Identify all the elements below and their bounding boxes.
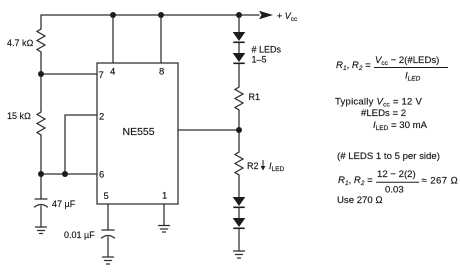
svg-text:1: 1 xyxy=(162,191,167,202)
svg-text:Vcc − 2(#LEDs): Vcc − 2(#LEDs) xyxy=(375,55,439,67)
resistor R1 xyxy=(235,85,243,111)
svg-text:NE555: NE555 xyxy=(123,126,155,138)
wire left column upper xyxy=(40,15,42,27)
wire pin 1 down xyxy=(163,204,165,226)
diode LED3 xyxy=(233,197,246,206)
ground pin 1 xyxy=(159,225,170,227)
wire LED3 to LED4 xyxy=(238,208,240,218)
wire pin 2 horizontal xyxy=(65,114,97,116)
node junction pin8 rail xyxy=(158,12,164,18)
ground LED branch xyxy=(234,250,245,252)
formula typical values xyxy=(335,97,428,133)
capacitor C 47uF xyxy=(35,198,47,200)
wire 47uF to ground xyxy=(40,206,42,227)
svg-text:6: 6 xyxy=(99,170,104,181)
svg-text:ILED: ILED xyxy=(405,71,421,83)
svg-text:R1, R2 =: R1, R2 = xyxy=(338,175,373,187)
formula R1 R2 equation xyxy=(336,55,448,83)
node output junction xyxy=(236,127,242,133)
svg-text:R1: R1 xyxy=(249,92,261,102)
svg-text:1–5: 1–5 xyxy=(252,55,267,65)
svg-text:15 kΩ: 15 kΩ xyxy=(7,111,31,121)
svg-text:(# LEDS 1 to 5 per side): (# LEDS 1 to 5 per side) xyxy=(337,151,440,162)
svg-text:Typically Vcc = 12 V: Typically Vcc = 12 V xyxy=(335,97,422,109)
svg-text:5: 5 xyxy=(104,191,109,202)
svg-text:≈ 267 Ω: ≈ 267 Ω xyxy=(422,176,459,187)
diode LED2 xyxy=(233,53,246,62)
svg-text:47 µF: 47 µF xyxy=(52,199,76,209)
wire LED2 to R1 xyxy=(238,63,240,85)
resistor R 15k xyxy=(37,110,45,136)
svg-text:# LEDs: # LEDs xyxy=(252,45,282,55)
svg-text:4: 4 xyxy=(110,67,115,78)
resistor R 4.7k xyxy=(37,27,45,53)
formula numeric result xyxy=(338,169,458,196)
svg-text:Use 270 Ω: Use 270 Ω xyxy=(337,195,383,206)
ILED down arrow xyxy=(261,160,266,171)
node B2 junction xyxy=(62,171,68,177)
node B junction xyxy=(38,171,44,177)
capacitor C 0.01uF xyxy=(102,229,114,231)
wire pin 2 vertical to node B2 xyxy=(64,115,66,174)
wire node A to pin 7 xyxy=(41,73,97,75)
node junction pin4 rail xyxy=(110,12,116,18)
resistor R2 xyxy=(235,150,243,177)
svg-text:ILED = 30 mA: ILED = 30 mA xyxy=(373,120,428,132)
diode LED4 xyxy=(233,218,246,227)
svg-text:7: 7 xyxy=(99,70,104,81)
Vcc arrow xyxy=(259,11,273,20)
wire pin 3 output to LED node xyxy=(178,129,239,131)
wire LED branch top xyxy=(238,15,240,32)
wire LED1 to LED2 xyxy=(238,42,240,53)
ground left column xyxy=(36,226,47,228)
wire 4.7k to node A xyxy=(40,53,42,74)
svg-text:0.03: 0.03 xyxy=(385,185,404,196)
svg-text:0.01 µF: 0.01 µF xyxy=(64,230,95,240)
svg-text:12 − 2(2): 12 − 2(2) xyxy=(377,169,416,180)
wire pin 8 to rail xyxy=(160,15,162,63)
wire R1 to output node xyxy=(238,111,240,130)
node junction LED branch rail xyxy=(236,12,242,18)
ground pin 5 xyxy=(103,256,114,258)
wire 0.01uF to ground xyxy=(107,237,109,257)
wire node B to pin 6 xyxy=(41,173,97,175)
wire output node to R2 xyxy=(238,130,240,150)
wire node B to capacitor 47uF xyxy=(40,174,42,199)
wire top supply rail xyxy=(41,14,259,16)
wire pin 4 to rail xyxy=(112,15,114,63)
wire LED4 to ground xyxy=(238,229,240,251)
svg-text:+ Vcc: + Vcc xyxy=(277,11,298,23)
wire node A down to 15k xyxy=(40,74,42,110)
svg-text:4.7 kΩ: 4.7 kΩ xyxy=(7,38,34,48)
diode LED1 xyxy=(233,32,246,41)
node A junction xyxy=(38,71,44,77)
wire R2 to LED3 xyxy=(238,177,240,197)
svg-text:8: 8 xyxy=(159,67,164,78)
svg-text:#LEDs = 2: #LEDs = 2 xyxy=(361,108,406,119)
wire 15k to node B xyxy=(40,136,42,174)
svg-text:ILED: ILED xyxy=(269,161,284,173)
svg-text:R2: R2 xyxy=(247,161,259,171)
IC U1 NE555 box xyxy=(97,63,178,204)
svg-text:2: 2 xyxy=(99,112,104,123)
wire pin 5 down xyxy=(107,204,109,230)
svg-text:R1, R2 =: R1, R2 = xyxy=(336,60,371,72)
